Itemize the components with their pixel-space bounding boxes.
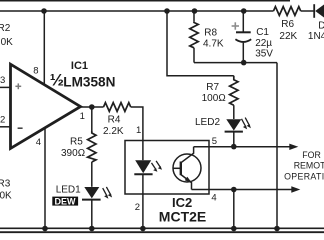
- svg-text:C1: C1: [256, 27, 269, 38]
- wire pin4 to ground: [233, 190, 235, 229]
- wire pin4 / emitter out: [192, 189, 293, 191]
- svg-text:0K: 0K: [0, 191, 12, 202]
- wire feed down: [167, 11, 234, 76]
- node gnd right rail: [274, 226, 280, 232]
- node C1 bottom: [241, 60, 247, 66]
- node LED2/pin5: [231, 144, 237, 150]
- svg-text:R4: R4: [108, 115, 121, 126]
- resistor R8: [190, 11, 198, 63]
- svg-text:2.2K: 2.2K: [103, 126, 124, 137]
- LED2: [225, 118, 251, 132]
- wire LED2 to pin5 line: [233, 132, 235, 147]
- wire pin5 / collector out: [194, 146, 290, 148]
- node C1 top: [241, 8, 247, 14]
- node gnd op-amp: [42, 226, 48, 232]
- svg-text:DEW: DEW: [55, 196, 77, 206]
- wire pin3 stub: [0, 86, 10, 88]
- arrow pin4: [291, 186, 300, 192]
- label C1 plus: [232, 22, 239, 29]
- node gnd IC2 pin2: [140, 226, 146, 232]
- svg-text:5: 5: [212, 136, 217, 147]
- resistor R7: [230, 76, 238, 106]
- diode D: [314, 4, 324, 18]
- wire R7 to LED2: [233, 105, 235, 119]
- svg-text:IC1: IC1: [71, 60, 88, 72]
- svg-text:R3: R3: [0, 179, 11, 190]
- wire LED1 to ground: [91, 199, 93, 228]
- wire R8/C1 bottom bus: [194, 62, 277, 64]
- node gnd emitter: [231, 226, 237, 232]
- svg-text:2: 2: [0, 115, 5, 126]
- wire op-amp pin8: [43, 11, 45, 86]
- wire pin2 stub: [0, 126, 10, 128]
- resistor R4: [104, 103, 131, 112]
- wire R4 to IC2 pin1: [131, 107, 143, 141]
- resistor R5: [88, 107, 96, 187]
- svg-text:35V: 35V: [255, 49, 273, 60]
- opto LED: [134, 141, 162, 229]
- node R8 top: [192, 8, 198, 14]
- svg-text:½: ½: [50, 71, 64, 90]
- IC2 optocoupler box: [125, 141, 209, 195]
- svg-text:R2: R2: [0, 23, 11, 34]
- svg-text:LED2: LED2: [195, 117, 220, 128]
- arrow pin5: [289, 144, 298, 150]
- svg-text:1: 1: [80, 111, 85, 122]
- op-amp minus: [18, 127, 23, 129]
- capacitor C1: [235, 11, 251, 63]
- svg-text:LED1: LED1: [56, 184, 81, 195]
- node output: [89, 104, 95, 110]
- wire op-amp output: [81, 106, 104, 108]
- node pin4/ground tap: [231, 187, 237, 193]
- opto transistor Q: [173, 147, 201, 190]
- svg-text:4: 4: [211, 192, 216, 203]
- wire right rail down to ground: [276, 63, 278, 229]
- resistor R6: [274, 7, 301, 16]
- svg-text:MCT2E: MCT2E: [159, 209, 206, 225]
- svg-text:OPERATION: OPERATION: [284, 171, 324, 181]
- svg-text:4.7K: 4.7K: [203, 39, 224, 50]
- svg-text:R6: R6: [281, 19, 294, 30]
- svg-text:22K: 22K: [279, 31, 297, 42]
- svg-text:3: 3: [0, 75, 5, 86]
- svg-text:1N4: 1N4: [308, 31, 324, 42]
- svg-text:REMOTE: REMOTE: [294, 161, 324, 171]
- label DEW: [52, 197, 78, 206]
- svg-text:R8: R8: [204, 27, 217, 38]
- op-amp plus: [15, 83, 21, 89]
- svg-text:R5: R5: [70, 136, 83, 147]
- svg-text:4: 4: [36, 137, 41, 148]
- wire R6 to D: [301, 10, 314, 12]
- wire top cropped: [0, 0, 290, 2]
- wire bottom cropped: [0, 231, 324, 233]
- LED1 DEW: [82, 187, 112, 200]
- svg-text:2: 2: [135, 202, 140, 213]
- wire V+ top rail: [0, 10, 274, 12]
- svg-text:1: 1: [136, 125, 141, 136]
- svg-text:FOR: FOR: [302, 150, 321, 160]
- op-amp IC1 triangle: [11, 64, 81, 148]
- svg-text:R7: R7: [206, 82, 219, 93]
- wire op-amp pin4 to ground: [44, 128, 46, 229]
- svg-text:390Ω: 390Ω: [61, 148, 85, 159]
- node R7 feed tap: [164, 8, 170, 14]
- wire ground rail: [0, 227, 324, 229]
- node gnd LED1: [89, 226, 95, 232]
- svg-text:0K: 0K: [1, 37, 14, 48]
- node top-left (op-amp V+ tap): [41, 8, 47, 14]
- svg-text:100Ω: 100Ω: [202, 93, 226, 104]
- svg-text:8: 8: [33, 65, 38, 76]
- svg-text:LM358N: LM358N: [63, 74, 115, 89]
- svg-text:22µ: 22µ: [255, 38, 272, 49]
